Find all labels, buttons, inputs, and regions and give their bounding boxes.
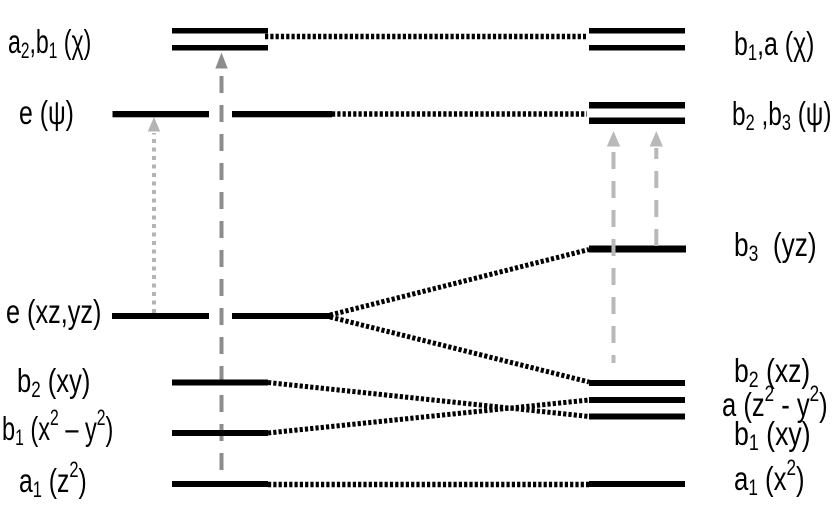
level bar b2,b3 (psi) upper right: [589, 102, 685, 109]
dotted correlation line e to b3(yz): [330, 250, 589, 316]
label a2,b1 (chi) left: [8, 25, 91, 59]
level bar b2 (xy) left: [172, 380, 268, 386]
dotted correlation line e to b2(xz): [330, 317, 589, 382]
label b1,a (chi) right: [734, 27, 814, 61]
label b2 (xz) right: [734, 354, 810, 388]
dotted correlation line psi: [332, 111, 587, 117]
level bar b3 (yz) right: [589, 246, 686, 253]
level bar b1,a (chi) lower right: [589, 45, 685, 51]
gray dotted arrow e(xz,yz) to e(psi) shaft: [152, 133, 156, 313]
level bar b1,a (chi) upper right: [589, 28, 685, 34]
label a1 (z2) left: [19, 464, 87, 498]
gray dashed arrow a1(z2) to chi head: [215, 53, 227, 69]
gray dashed arrow b3(yz) to psi head: [650, 131, 663, 147]
level bar a1 (z2) left: [172, 481, 268, 487]
level bar b2 (xz) right: [589, 380, 685, 386]
gray dashed arrow b2(xz) to psi shaft: [612, 148, 616, 363]
gray dashed arrow a1(z2) to chi shaft: [220, 72, 224, 470]
label a (z2-y2) right: [722, 388, 828, 422]
label e (psi) left: [19, 96, 74, 130]
label b1 (x2-y2) left: [2, 412, 113, 446]
dotted correlation line chi: [265, 34, 586, 40]
level bar a1 (x2) right: [589, 481, 685, 487]
label e (xz,yz) left: [6, 295, 101, 329]
label b2 (xy) left: [17, 364, 90, 398]
label a1 (x2) right: [734, 462, 805, 496]
level bar e (psi) left segment 1: [113, 111, 210, 117]
gray dashed arrow b2(xz) to psi head: [607, 131, 620, 147]
level bar b1 (x2-y2) left: [172, 430, 268, 436]
level bar e (xz,yz) segment 2: [232, 313, 330, 319]
gray dotted arrow e(xz,yz) to e(psi) head: [148, 117, 160, 132]
level bar e (xz,yz) segment 1: [112, 313, 209, 319]
level bar a2,b1 (chi) lower left: [172, 45, 268, 51]
level bar e (psi) left segment 2: [232, 111, 332, 117]
dotted correlation line b2(xy) to b1(xy): [268, 383, 589, 417]
dotted correlation line b1(x2-y2) to a(z2-y2): [268, 400, 589, 433]
label b3 (yz) right: [734, 228, 817, 262]
label b1 (xy) right: [734, 417, 811, 451]
level bar b1 (xy) right: [589, 414, 685, 420]
level bar a (z2-y2) right: [589, 397, 685, 403]
dotted correlation line a1: [268, 482, 589, 488]
level bar b2,b3 (psi) lower right: [589, 118, 685, 125]
gray dashed arrow b3(yz) to psi shaft: [654, 148, 658, 246]
label b2,b3 (psi) right: [732, 97, 831, 131]
level bar a2,b1 (chi) upper left: [172, 28, 268, 34]
